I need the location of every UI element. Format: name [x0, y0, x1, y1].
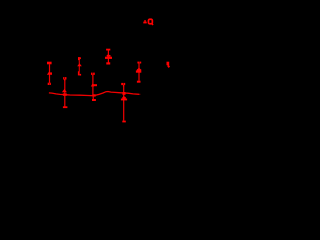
node: L5 bus junction — [122, 92, 125, 95]
load L4 bottom cap — [92, 99, 96, 101]
generator G1 tail — [152, 23, 153, 25]
source S1 top arrowhead — [137, 62, 139, 64]
load L3 arrowhead — [77, 63, 82, 66]
load L1 top cap — [47, 62, 52, 65]
load L4 wire — [92, 75, 94, 96]
marker triangle A — [144, 20, 146, 22]
load L4 lower stub — [92, 96, 94, 99]
node: L4 bus junction — [92, 94, 95, 96]
source S1 bottom cap — [137, 81, 141, 83]
load L3 wire — [78, 60, 80, 71]
load L2 top arrowhead — [63, 77, 64, 79]
load L6 top cap — [106, 49, 110, 51]
load L2 bottom cap — [63, 106, 68, 108]
load L3 bottom cap — [78, 71, 80, 75]
load L4 arrowhead — [91, 84, 94, 87]
marker B block — [167, 62, 170, 65]
load L5 arrowhead (stepped) — [123, 96, 125, 97]
load L5 top arrowhead — [121, 83, 123, 85]
load L6 bottom cap — [106, 62, 110, 64]
load L6 arrowhead (stepped) — [108, 53, 110, 56]
load L1 arrowhead nub — [51, 72, 53, 74]
load L5 bottom cap — [122, 121, 126, 123]
load L3 top cap — [78, 57, 80, 60]
generator G1 ring — [148, 19, 152, 24]
load L1 wire — [49, 64, 51, 83]
wire: main bus polyline — [49, 92, 139, 96]
source S1 wire — [138, 63, 140, 81]
node: L2 bus junction — [63, 93, 67, 95]
source S1 marker (stepped triangle) — [138, 68, 140, 69]
marker B tail — [168, 65, 169, 67]
load L5 wire — [123, 85, 125, 121]
load L4 top arrowhead — [91, 73, 93, 75]
load L2 wire — [64, 80, 66, 107]
wire: bus right dim end — [139, 93, 140, 95]
load L4 side nub — [93, 84, 97, 86]
load L1 arrowhead — [47, 71, 52, 75]
load L1 bottom cap — [48, 83, 50, 85]
load L2 arrowhead — [62, 89, 67, 92]
load L6 wire — [107, 51, 109, 63]
